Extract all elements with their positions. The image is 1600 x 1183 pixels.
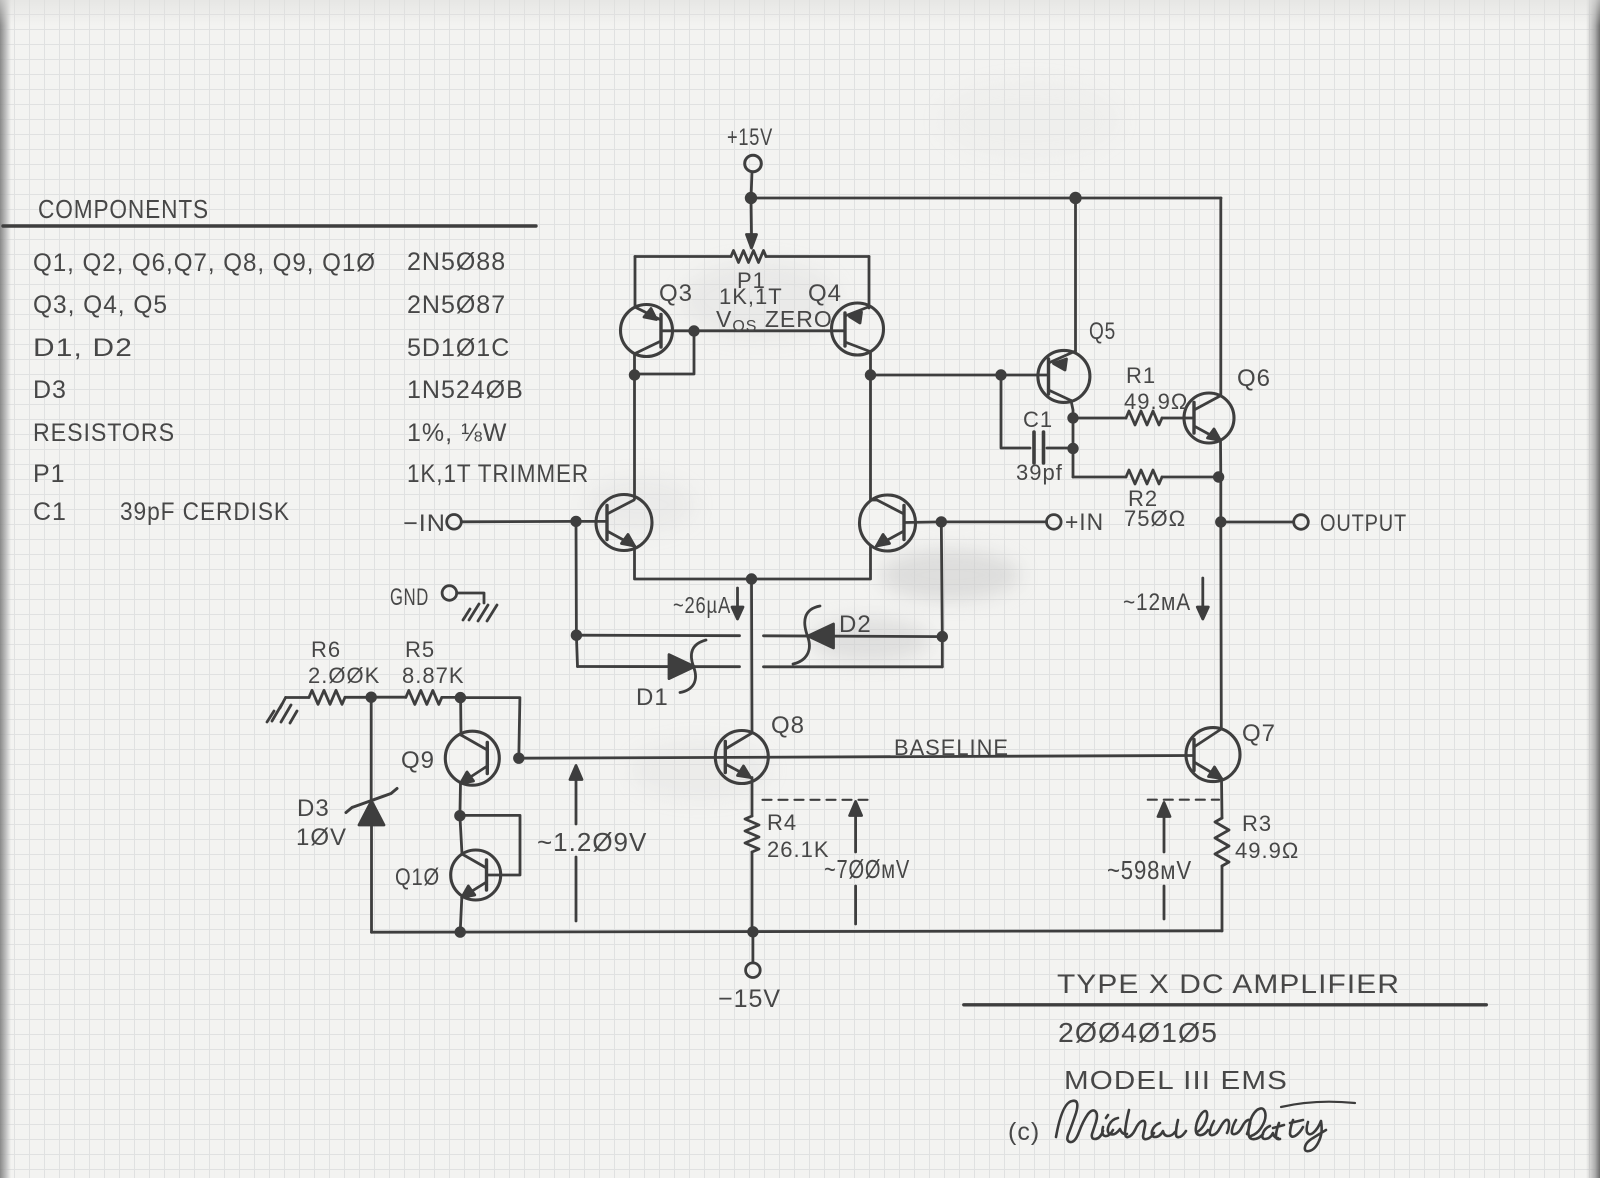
svg-text:R1: R1 — [1126, 363, 1156, 388]
resistor R5 — [371, 690, 460, 704]
svg-text:Q1Ø: Q1Ø — [395, 864, 440, 891]
svg-text:D1, D2: D1, D2 — [33, 334, 133, 362]
terminal +IN — [904, 515, 1061, 530]
svg-text:8.87K: 8.87K — [402, 663, 465, 688]
svg-text:75ØΩ: 75ØΩ — [1124, 506, 1186, 531]
wire -IN drop to diodes — [572, 521, 581, 666]
wire Q5 collector node — [1069, 401, 1078, 478]
svg-text:RESISTORS: RESISTORS — [33, 419, 175, 447]
svg-text:BASELINE: BASELINE — [894, 735, 1009, 760]
svg-text:GND: GND — [390, 584, 429, 611]
svg-text:2N5Ø87: 2N5Ø87 — [407, 291, 506, 319]
diode D1 — [578, 640, 943, 693]
svg-text:Q3, Q4, Q5: Q3, Q4, Q5 — [33, 291, 168, 319]
resistor R1 — [1073, 411, 1194, 425]
resistor R6 — [286, 690, 372, 704]
transistor Q10 — [451, 850, 501, 900]
wire Q9 emitter node — [456, 784, 465, 821]
svg-text:Q4: Q4 — [808, 280, 842, 307]
wire P1 left leg — [634, 257, 637, 308]
svg-text:+IN: +IN — [1065, 509, 1104, 536]
svg-text:D3: D3 — [297, 795, 330, 822]
wire Q10 emitter to rail — [460, 898, 462, 933]
svg-text:R6: R6 — [311, 637, 341, 662]
wire bottom rail — [372, 928, 1223, 937]
svg-text:49.9Ω: 49.9Ω — [1124, 389, 1188, 414]
transistor Q3 — [621, 305, 673, 357]
svg-text:2N5Ø88: 2N5Ø88 — [407, 248, 506, 276]
paper smudges — [585, 80, 1120, 800]
svg-text:−15V: −15V — [718, 985, 781, 1013]
wire Q3 base to Q4 base — [661, 327, 845, 336]
wire tail current — [750, 579, 753, 733]
transistor Q4 — [832, 303, 884, 355]
svg-text:D2: D2 — [839, 611, 872, 638]
resistor R3 — [1215, 779, 1229, 932]
svg-text:C1: C1 — [1023, 407, 1053, 432]
resistor R2 — [1073, 470, 1223, 484]
svg-text:1%, ⅛W: 1%, ⅛W — [407, 419, 507, 447]
wire +IN drop to diodes — [938, 522, 947, 667]
svg-text:2.ØØK: 2.ØØK — [308, 663, 380, 688]
transistor Q1 — [596, 495, 652, 551]
terminal GND — [442, 586, 484, 603]
wire Q2 collector — [871, 499, 878, 502]
wire Q5 emitter to rail — [1074, 198, 1077, 351]
svg-text:~12мA: ~12мA — [1123, 589, 1191, 616]
transistor Q2 — [860, 495, 916, 551]
svg-text:−IN: −IN — [403, 510, 446, 537]
svg-text:D3: D3 — [33, 376, 67, 404]
svg-text:Q8: Q8 — [771, 712, 805, 739]
svg-text:(c): (c) — [1008, 1118, 1040, 1146]
wire Q4 collector to Q5 base — [871, 371, 1049, 380]
svg-text:39pf: 39pf — [1016, 460, 1063, 485]
wire Q6 collector to rail — [1219, 198, 1222, 396]
svg-text:39pF CERDISK: 39pF CERDISK — [120, 498, 290, 526]
ground symbol left — [267, 698, 297, 724]
terminal -IN — [447, 515, 607, 530]
wire P1 wiper arrow — [747, 198, 757, 248]
svg-text:~598мV: ~598мV — [1107, 855, 1192, 885]
terminal -15V — [746, 932, 761, 978]
capacitor C1 — [1001, 375, 1073, 463]
title underline — [964, 1003, 1487, 1006]
svg-text:Q6: Q6 — [1237, 365, 1271, 392]
svg-text:2ØØ4Ø1Ø5: 2ØØ4Ø1Ø5 — [1058, 1017, 1218, 1048]
scan edge left — [0, 0, 11, 1178]
svg-text:26.1K: 26.1K — [767, 837, 830, 862]
wire Q9 collector to R5 node — [459, 698, 462, 735]
wire R5 to Q9 base loop — [456, 693, 520, 758]
svg-text:Q5: Q5 — [1089, 318, 1116, 345]
wire Q1 emitter / tail — [635, 546, 871, 583]
signature — [1056, 1101, 1355, 1151]
svg-text:5D1Ø1C: 5D1Ø1C — [407, 334, 510, 362]
transistor Q6 — [1184, 393, 1234, 443]
wire Q6 emitter to output node — [1217, 441, 1226, 527]
svg-text:49.9Ω: 49.9Ω — [1235, 838, 1299, 863]
svg-text:OUTPUT: OUTPUT — [1320, 510, 1407, 537]
scan edge right — [1586, 0, 1600, 1178]
wire Q4 collector node — [866, 352, 875, 501]
svg-text:R4: R4 — [767, 810, 797, 835]
svg-text:TYPE X DC AMPLIFIER: TYPE X DC AMPLIFIER — [1057, 969, 1400, 999]
wire output rail down — [1219, 522, 1222, 729]
node R6/R5/D3 — [367, 693, 376, 702]
svg-text:+15V: +15V — [727, 124, 773, 151]
current arrow ~26uA — [732, 588, 743, 619]
svg-text:1ØV: 1ØV — [296, 824, 347, 851]
scan edge top — [0, 0, 1600, 26]
wire BASELINE — [515, 754, 1195, 763]
transistor Q7 — [1186, 728, 1240, 782]
wire P1 right leg — [868, 257, 871, 309]
zener D3 — [346, 697, 397, 932]
terminal +15V — [745, 155, 762, 198]
components list underline — [3, 224, 536, 227]
wire top rail +15V — [746, 193, 1221, 203]
voltage arrow ~598mV — [1158, 803, 1170, 920]
svg-text:~7ØØмV: ~7ØØмV — [824, 854, 910, 884]
svg-text:R3: R3 — [1242, 811, 1272, 836]
svg-text:Q1, Q2, Q6,Q7, Q8, Q9, Q1Ø: Q1, Q2, Q6,Q7, Q8, Q9, Q1Ø — [33, 249, 376, 277]
svg-text:C1: C1 — [33, 498, 67, 526]
transistor Q9 — [445, 731, 499, 785]
svg-text:Q9: Q9 — [401, 747, 435, 774]
diode D2 — [576, 606, 942, 664]
svg-text:1N524ØB: 1N524ØB — [407, 376, 524, 404]
ground symbol at GND — [463, 604, 497, 621]
terminal OUTPUT — [1221, 515, 1308, 530]
svg-text:D1: D1 — [636, 684, 669, 711]
resistor R4 — [745, 778, 759, 933]
svg-text:R5: R5 — [405, 637, 435, 662]
svg-text:~1.2Ø9V: ~1.2Ø9V — [537, 827, 647, 857]
transistor Q5 — [1038, 350, 1090, 402]
voltage arrow ~1.209V — [570, 766, 582, 922]
wire Q10 collector up — [460, 816, 462, 854]
svg-text:1K,1T TRIMMER: 1K,1T TRIMMER — [407, 460, 589, 488]
svg-text:~26µA: ~26µA — [673, 592, 731, 618]
wire Q3 collector — [630, 354, 639, 500]
voltage arrow ~700mV — [850, 802, 862, 925]
wire Q3 base-collector tie — [636, 331, 694, 374]
current arrow ~12mA — [1197, 578, 1208, 619]
dashed level line right — [1148, 799, 1219, 801]
dashed level line left — [763, 799, 871, 801]
svg-text:COMPONENTS: COMPONENTS — [38, 194, 209, 224]
transistor Q8 — [715, 731, 768, 784]
svg-text:P1: P1 — [33, 460, 66, 488]
wire Q9 emitter to Q10 base loop — [460, 815, 520, 875]
svg-text:Q3: Q3 — [659, 280, 693, 307]
svg-text:Q7: Q7 — [1242, 720, 1276, 747]
svg-text:MODEL III EMS: MODEL III EMS — [1064, 1065, 1288, 1095]
potentiometer P1 — [635, 251, 869, 263]
